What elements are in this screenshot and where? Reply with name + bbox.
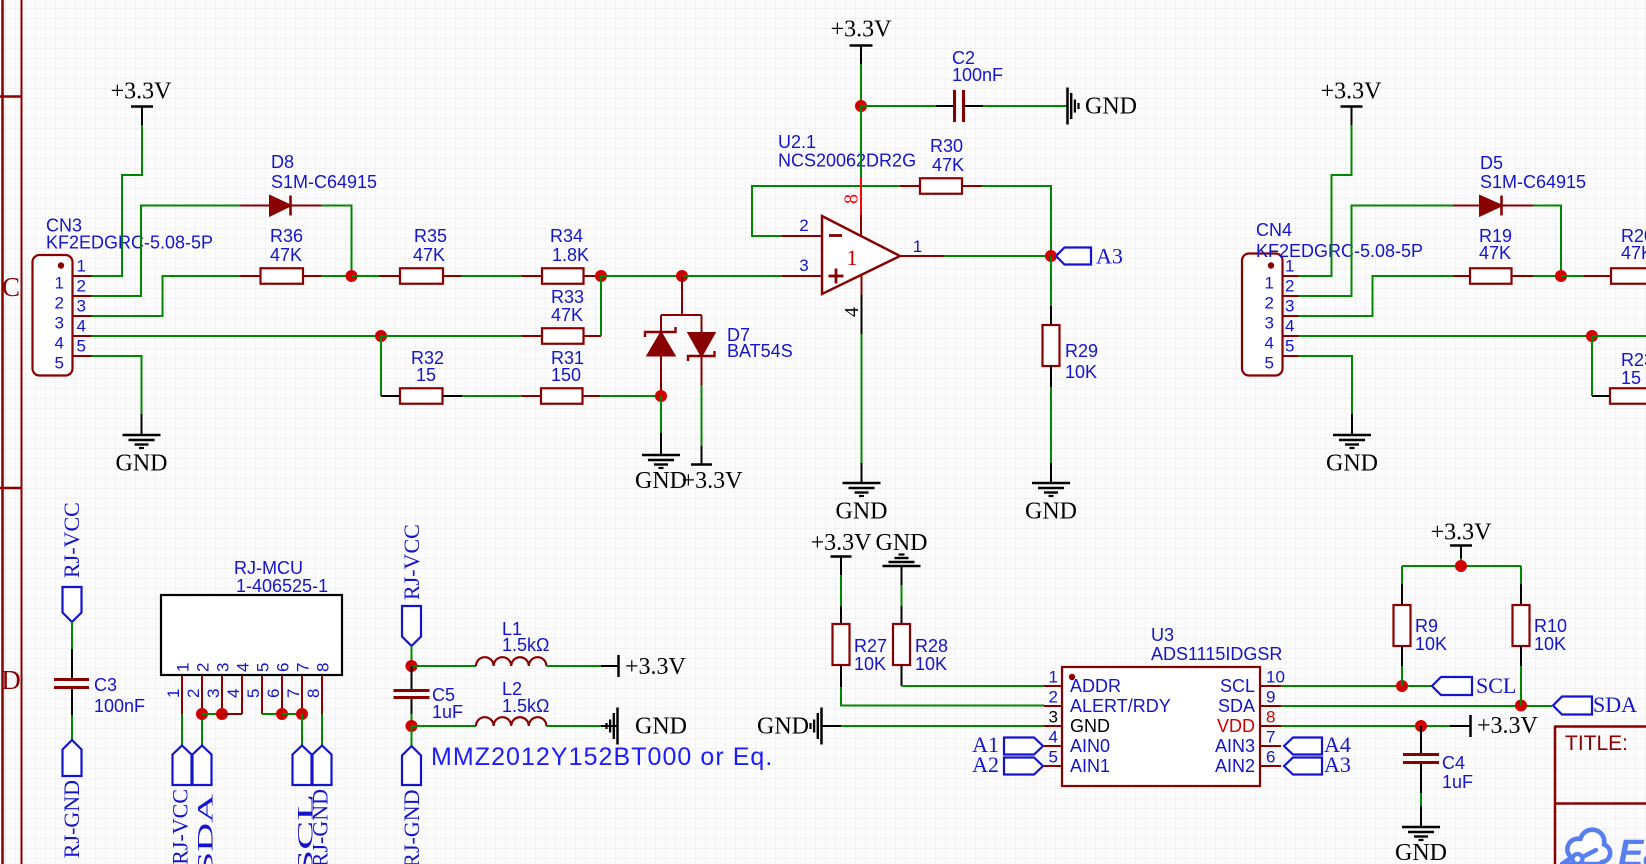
ground GND (R29) <box>1025 463 1077 525</box>
wire C5 to node <box>411 714 413 726</box>
svg-text:D: D <box>1 665 21 695</box>
junction node VDD/C4 <box>1415 720 1427 732</box>
wire GND to U3 pin3 <box>841 725 1044 727</box>
svg-text:SCL: SCL <box>1220 676 1255 696</box>
resistor R10 <box>1513 584 1530 666</box>
svg-text:+3.3V: +3.3V <box>625 654 687 680</box>
RJ-MCU pins 1-8 <box>182 675 322 714</box>
svg-text:ADS1115IDGSR: ADS1115IDGSR <box>1151 644 1282 664</box>
svg-text:ALERT/RDY: ALERT/RDY <box>1070 696 1171 716</box>
svg-text:GND: GND <box>635 714 687 740</box>
svg-text:5: 5 <box>1049 748 1058 767</box>
svg-text:3: 3 <box>1285 297 1294 316</box>
junction MCU pin3 <box>216 708 228 720</box>
wire R35 to R34 <box>462 275 522 277</box>
svg-text:3: 3 <box>204 689 223 698</box>
svg-text:GND: GND <box>1070 716 1110 736</box>
svg-text:KF2EDGRC-5.08-5P: KF2EDGRC-5.08-5P <box>46 233 213 253</box>
svg-text:47K: 47K <box>413 245 445 265</box>
svg-text:4: 4 <box>1285 317 1294 336</box>
wire MCU pin4 bend <box>222 713 242 715</box>
wire node to R35 <box>352 275 380 277</box>
wire MCU pin1 to RJ-VCC <box>181 714 183 746</box>
junction MCU pin7 <box>296 708 308 720</box>
svg-text:2: 2 <box>184 689 203 698</box>
svg-text:1uF: 1uF <box>1442 772 1473 792</box>
svg-text:ADDR: ADDR <box>1070 676 1121 696</box>
resistor R9 <box>1394 584 1411 666</box>
net flag A3 <box>1056 244 1123 269</box>
wire CN3 pin2 to D8 anode <box>92 206 240 297</box>
svg-text:2: 2 <box>1049 688 1058 707</box>
svg-text:A3: A3 <box>1324 752 1351 777</box>
svg-text:9: 9 <box>1266 688 1275 707</box>
diode D7 (dual BAT54S) <box>645 327 715 396</box>
wire rail to R10 <box>1520 566 1522 584</box>
svg-text:U3: U3 <box>1151 625 1174 645</box>
U2 pin 3 non-inverting input <box>782 275 822 277</box>
wire rail to R9 <box>1401 566 1403 584</box>
wire CN3 pin5 to GND <box>92 356 142 414</box>
svg-text:C: C <box>2 272 20 302</box>
wire R34 node to D7 node <box>601 275 682 277</box>
svg-text:SDA: SDA <box>1593 692 1637 717</box>
wire CN3 pin4 rail <box>92 335 381 337</box>
svg-text:5: 5 <box>254 663 273 672</box>
connector CN4 KF2EDGRC-5.08-5P <box>1242 254 1299 376</box>
wire C3 to RJ-GND <box>71 715 73 740</box>
svg-text:5: 5 <box>1265 354 1274 373</box>
U2 pin 8 V+ <box>860 106 862 237</box>
svg-text:5: 5 <box>1285 337 1294 356</box>
capacitor C5 <box>394 666 430 714</box>
svg-text:R27: R27 <box>854 636 887 656</box>
svg-text:R29: R29 <box>1065 341 1098 361</box>
junction node D7 anode/R31 <box>655 390 667 402</box>
svg-text:6: 6 <box>1266 748 1275 767</box>
capacitor C2 <box>861 90 983 122</box>
wire R30 to output node <box>982 186 1051 256</box>
svg-text:R10: R10 <box>1534 616 1567 636</box>
diode D8 <box>240 196 322 216</box>
svg-text:4: 4 <box>55 334 64 353</box>
wire R19 to node <box>1534 275 1562 277</box>
resistor R32 <box>381 388 462 404</box>
svg-text:RJ-VCC: RJ-VCC <box>399 524 424 600</box>
wire C4 to GND <box>1420 793 1422 806</box>
svg-text:SCL: SCL <box>1476 673 1516 698</box>
wire output to node <box>944 255 1051 257</box>
svg-text:GND: GND <box>836 499 888 525</box>
net flag RJ-VCC (C3) <box>59 502 84 622</box>
power +3.3V (D7, inverted) <box>682 446 744 494</box>
wire R31 to D7 anode node <box>600 395 661 397</box>
resistor R27 <box>833 606 850 687</box>
svg-text:1.5kΩ: 1.5kΩ <box>502 696 549 716</box>
svg-text:1.5kΩ: 1.5kΩ <box>502 635 549 655</box>
svg-text:15: 15 <box>416 365 436 385</box>
svg-text:150: 150 <box>551 365 581 385</box>
svg-text:5: 5 <box>55 354 64 373</box>
wire R33 up to R34 node <box>600 276 602 336</box>
svg-text:1: 1 <box>913 237 922 256</box>
CN4 pin numbers <box>1265 257 1295 373</box>
wire CN3 pin3 to R36 <box>92 276 240 316</box>
svg-text:2: 2 <box>1285 277 1294 296</box>
svg-text:3: 3 <box>55 314 64 333</box>
wire R32 to R31 <box>462 395 522 397</box>
svg-text:2: 2 <box>1265 294 1274 313</box>
wire node to op-amp pin3 <box>682 275 782 277</box>
svg-text:Ea: Ea <box>1618 833 1646 864</box>
svg-text:4: 4 <box>77 317 86 336</box>
svg-text:47K: 47K <box>1479 243 1511 263</box>
svg-text:+3.3V: +3.3V <box>111 79 173 105</box>
svg-text:RJ-MCU: RJ-MCU <box>234 558 303 578</box>
net flag SDA (MCU) <box>193 746 218 864</box>
net flag SCL <box>1432 673 1516 698</box>
svg-text:1.8K: 1.8K <box>552 245 589 265</box>
wire MCU pin7 to SCL <box>301 714 303 746</box>
svg-text:AIN2: AIN2 <box>1215 756 1255 776</box>
wire node down to R23 <box>1591 336 1593 396</box>
wire node to L1 <box>412 665 477 667</box>
resistor R36 <box>240 268 322 284</box>
svg-text:R36: R36 <box>270 226 303 246</box>
wire U2 pin4 to GND <box>861 334 863 463</box>
junction node C5 bottom <box>406 720 418 732</box>
svg-text:R34: R34 <box>550 226 583 246</box>
svg-text:10K: 10K <box>1534 634 1566 654</box>
svg-text:1: 1 <box>1049 668 1058 687</box>
svg-text:3: 3 <box>77 297 86 316</box>
wire MCU pin2-pin3 <box>202 713 222 715</box>
ground GND (D7) <box>635 433 687 494</box>
svg-text:47K: 47K <box>932 155 964 175</box>
resistor R19 <box>1453 268 1534 284</box>
svg-text:1: 1 <box>1265 274 1274 293</box>
wire +3.3V to C2 node <box>860 64 862 106</box>
svg-text:8: 8 <box>304 689 323 698</box>
svg-text:GND: GND <box>635 468 687 494</box>
resistor R35 <box>379 268 462 284</box>
ground GND (C4) <box>1395 806 1447 864</box>
power +3.3V (CN3) <box>111 79 173 126</box>
junction node SDA/R10 <box>1515 700 1527 712</box>
svg-text:1-406525-1: 1-406525-1 <box>236 576 328 596</box>
wire CN4 pin2 to D5 anode <box>1299 206 1454 297</box>
power +3.3V (R27) <box>811 530 873 575</box>
U3 left pin numbers <box>1049 668 1058 767</box>
wire D7 anode to GND <box>660 396 662 433</box>
svg-text:RJ-GND: RJ-GND <box>59 780 84 858</box>
wire D7 cathode to +3.3V <box>701 385 703 446</box>
wire C2 to GND <box>983 105 1067 107</box>
RJ-MCU pin numbers <box>164 663 333 698</box>
wire RJ-VCC to C3 <box>71 622 73 649</box>
svg-text:+3.3V: +3.3V <box>1431 520 1493 546</box>
IC U3 ADS1115IDGSR <box>1044 667 1281 786</box>
svg-text:8: 8 <box>841 194 863 204</box>
wire R36 to node <box>322 275 352 277</box>
resistor R28 <box>893 606 910 686</box>
junction node SCL/R9 <box>1396 680 1408 692</box>
svg-text:SDA: SDA <box>1218 696 1255 716</box>
wire MCU pin6-pin7 <box>282 713 302 715</box>
svg-text:10: 10 <box>1266 668 1285 687</box>
svg-text:4: 4 <box>234 663 253 672</box>
svg-text:6: 6 <box>264 689 283 698</box>
U3 right pin numbers <box>1266 668 1285 767</box>
svg-text:CN4: CN4 <box>1256 220 1292 240</box>
svg-text:MMZ2012Y152BT000 or Eq.: MMZ2012Y152BT000 or Eq. <box>431 743 773 771</box>
power +3.3V flag (L1) <box>601 654 687 680</box>
svg-text:15: 15 <box>1621 368 1641 388</box>
svg-text:RJ-VCC: RJ-VCC <box>168 789 193 864</box>
wire R10 to SDA <box>1520 666 1522 706</box>
junction node R36/D8/R35 <box>346 270 358 282</box>
CN3 pin numbers <box>55 257 86 373</box>
wire +3.3V to R27 <box>840 575 842 606</box>
svg-text:1: 1 <box>55 274 64 293</box>
ground GND (CN3 pin5) <box>116 414 168 477</box>
svg-text:RJ-GND: RJ-GND <box>399 790 424 864</box>
wire A3 node to R29 <box>1050 256 1052 306</box>
wire U3 SDA to flag <box>1281 705 1552 707</box>
svg-text:1: 1 <box>77 257 86 276</box>
svg-text:+3.3V: +3.3V <box>811 530 873 556</box>
svg-text:1: 1 <box>164 689 183 698</box>
wire CN4 pin3 to R19 <box>1299 276 1454 316</box>
svg-text:C3: C3 <box>94 675 117 695</box>
op-amp U2.1 NCS20062DR2G <box>822 216 900 294</box>
power +3.3V (R9/R10) <box>1431 520 1493 559</box>
wire RJ-VCC to node <box>411 646 413 666</box>
diode D5 <box>1453 196 1534 216</box>
svg-text:U2.1: U2.1 <box>778 132 816 152</box>
junction node pin4/R23 <box>1586 330 1598 342</box>
svg-text:4: 4 <box>1265 334 1274 353</box>
EasyEDA logo <box>1562 830 1646 864</box>
capacitor C3 <box>54 649 89 715</box>
net flag RJ-VCC (MCU) <box>168 746 193 864</box>
svg-text:5: 5 <box>77 337 86 356</box>
svg-text:GND: GND <box>876 530 928 556</box>
wire L1 to +3.3V <box>546 665 601 667</box>
junction node output A3 <box>1045 250 1057 262</box>
wire MCU pin8 to RJ-GND <box>321 714 323 746</box>
junction node +3.3V rail <box>1455 560 1467 572</box>
svg-text:10K: 10K <box>915 654 947 674</box>
wire L2 to GND <box>546 725 601 727</box>
svg-text:+3.3V: +3.3V <box>682 468 744 494</box>
inductor L2 <box>476 717 546 726</box>
svg-text:R23: R23 <box>1621 350 1646 370</box>
inductor L1 <box>476 657 546 666</box>
svg-text:1: 1 <box>174 663 193 672</box>
svg-text:3: 3 <box>1049 708 1058 727</box>
junction node D7 clamp <box>676 270 688 282</box>
ground GND (CN4 pin5) <box>1326 414 1378 477</box>
wire node to R20 <box>1561 275 1584 277</box>
resistor R33 <box>522 328 602 344</box>
net flag RJ-GND (C5) <box>399 746 424 864</box>
net flag A2 <box>972 752 1043 777</box>
svg-text:D5: D5 <box>1480 153 1503 173</box>
connector CN3 KF2EDGRC-5.08-5P <box>33 255 93 376</box>
svg-text:5: 5 <box>244 689 263 698</box>
resistor R29 <box>1043 306 1060 387</box>
svg-text:S1M-C64915: S1M-C64915 <box>1480 172 1586 192</box>
ground GND flag (U3 pin3) <box>757 708 841 745</box>
svg-text:6: 6 <box>274 663 293 672</box>
svg-text:AIN1: AIN1 <box>1070 756 1110 776</box>
svg-text:R9: R9 <box>1415 616 1438 636</box>
wire node to right edge <box>1592 335 1646 337</box>
svg-text:7: 7 <box>1266 728 1275 747</box>
svg-text:R35: R35 <box>414 226 447 246</box>
net flag A3 (U3) <box>1284 752 1351 777</box>
junction node VCC/C2 <box>855 100 867 112</box>
svg-text:C4: C4 <box>1442 753 1465 773</box>
wire D8 cathode to node R36-R35 <box>322 206 352 277</box>
svg-text:3: 3 <box>214 663 233 672</box>
wire CN4 pin1 to +3.3V <box>1299 125 1352 276</box>
capacitor C4 <box>1403 726 1439 793</box>
ground GND flag (L2) <box>601 708 687 745</box>
svg-text:2: 2 <box>194 663 213 672</box>
wire R28 to U3 pin1 <box>902 685 1045 687</box>
svg-text:4: 4 <box>1049 728 1058 747</box>
U2 pin 4 V- <box>861 275 863 335</box>
wire node to R33 <box>381 335 522 337</box>
junction node C5 top <box>406 660 418 672</box>
svg-text:KF2EDGRC-5.08-5P: KF2EDGRC-5.08-5P <box>1256 241 1423 261</box>
svg-text:10K: 10K <box>1415 634 1447 654</box>
wire +3.3V node <box>1460 558 1462 566</box>
wire feedback pin2 to R30 <box>752 186 900 236</box>
net flag A1 <box>972 732 1043 757</box>
svg-text:+3.3V: +3.3V <box>1477 713 1539 739</box>
svg-text:10K: 10K <box>1065 362 1097 382</box>
wire U3 SCL to flag <box>1281 685 1432 687</box>
svg-text:8: 8 <box>314 663 333 672</box>
ground GND (R28, inverted) <box>876 530 928 585</box>
svg-text:A3: A3 <box>1096 244 1123 269</box>
svg-text:GND: GND <box>1085 94 1137 120</box>
ground GND (U2) <box>836 463 888 525</box>
ground GND (C2) <box>1068 88 1138 125</box>
svg-text:GND: GND <box>1326 451 1378 477</box>
svg-text:VDD: VDD <box>1217 716 1255 736</box>
wire CN3 pin1 to +3.3V <box>92 125 142 276</box>
svg-text:S1M-C64915: S1M-C64915 <box>271 172 377 192</box>
wire U3 VDD to +3.3V <box>1281 725 1450 727</box>
title block frame <box>1555 726 1646 864</box>
net flag A4 <box>1284 732 1351 757</box>
U2 pin 2 inverting input <box>782 235 822 237</box>
wire R27 to U3 pin2 <box>841 687 1044 706</box>
connector RJ-MCU 1-406525-1 <box>161 595 342 675</box>
wire CN4 pin5 to GND <box>1299 356 1353 414</box>
U2 pin 1 output <box>900 255 944 257</box>
svg-text:2: 2 <box>799 216 808 235</box>
wire D7 common node <box>661 276 702 333</box>
svg-text:100nF: 100nF <box>94 696 145 716</box>
svg-text:2: 2 <box>55 294 64 313</box>
wire D5 cathode to node <box>1534 206 1562 277</box>
svg-text:A2: A2 <box>972 752 999 777</box>
wire MCU pin2 to SDA <box>201 714 203 746</box>
junction MCU pin6 <box>276 708 288 720</box>
resistor R30 <box>900 178 982 194</box>
wire GND to R28 <box>901 585 903 606</box>
svg-text:SDA: SDA <box>193 794 218 864</box>
net flag RJ-VCC (C5) <box>399 524 424 646</box>
junction node R19/D5/R20 <box>1555 270 1567 282</box>
svg-text:1uF: 1uF <box>432 702 463 722</box>
svg-text:GND: GND <box>757 714 809 740</box>
svg-text:BAT54S: BAT54S <box>727 341 793 361</box>
wire R9 to SCL <box>1401 666 1403 686</box>
wire CN4 pin4 rail <box>1299 335 1593 337</box>
junction node pin4/R32/R33 <box>375 330 387 342</box>
power +3.3V (CN4) <box>1321 79 1383 126</box>
svg-text:NCS20062DR2G: NCS20062DR2G <box>778 151 916 171</box>
net flag SCL (MCU) <box>293 746 318 864</box>
resistor R31 <box>522 388 601 404</box>
svg-text:2: 2 <box>77 277 86 296</box>
power +3.3V (U2 supply) <box>831 17 893 65</box>
svg-text:GND: GND <box>1025 499 1077 525</box>
net flag RJ-GND (MCU) <box>308 746 333 864</box>
svg-text:100nF: 100nF <box>952 65 1003 85</box>
resistor R23 <box>1592 388 1646 404</box>
svg-text:GND: GND <box>116 451 168 477</box>
svg-text:7: 7 <box>294 663 313 672</box>
svg-text:R33: R33 <box>551 287 584 307</box>
wire R29 to GND <box>1050 387 1052 463</box>
svg-text:R30: R30 <box>930 136 963 156</box>
resistor R20 <box>1584 268 1646 284</box>
wire MCU pin5 bend <box>262 713 282 715</box>
svg-text:AIN3: AIN3 <box>1215 736 1255 756</box>
wire R9-R10 top rail <box>1402 565 1521 567</box>
svg-text:+3.3V: +3.3V <box>1321 79 1383 105</box>
wire node to L2 <box>412 725 477 727</box>
svg-text:47K: 47K <box>1621 243 1646 263</box>
wire node to RJ-GND <box>411 726 413 746</box>
svg-text:AIN0: AIN0 <box>1070 736 1110 756</box>
svg-text:RJ-VCC: RJ-VCC <box>59 502 84 578</box>
junction MCU pin2 <box>196 708 208 720</box>
svg-text:D8: D8 <box>271 152 294 172</box>
svg-text:3: 3 <box>799 256 808 275</box>
junction node R34/R33 output <box>595 270 607 282</box>
svg-text:8: 8 <box>1266 708 1275 727</box>
svg-text:R28: R28 <box>915 636 948 656</box>
svg-text:7: 7 <box>284 689 303 698</box>
power +3.3V flag (VDD) <box>1450 713 1539 739</box>
svg-text:GND: GND <box>1395 840 1447 864</box>
wire node down to R32 <box>380 336 382 396</box>
net flag SDA <box>1553 692 1637 717</box>
svg-text:47K: 47K <box>551 305 583 325</box>
svg-text:47K: 47K <box>270 245 302 265</box>
svg-text:1: 1 <box>847 245 858 270</box>
svg-text:TITLE:: TITLE: <box>1565 732 1628 755</box>
resistor R34 <box>522 268 602 284</box>
